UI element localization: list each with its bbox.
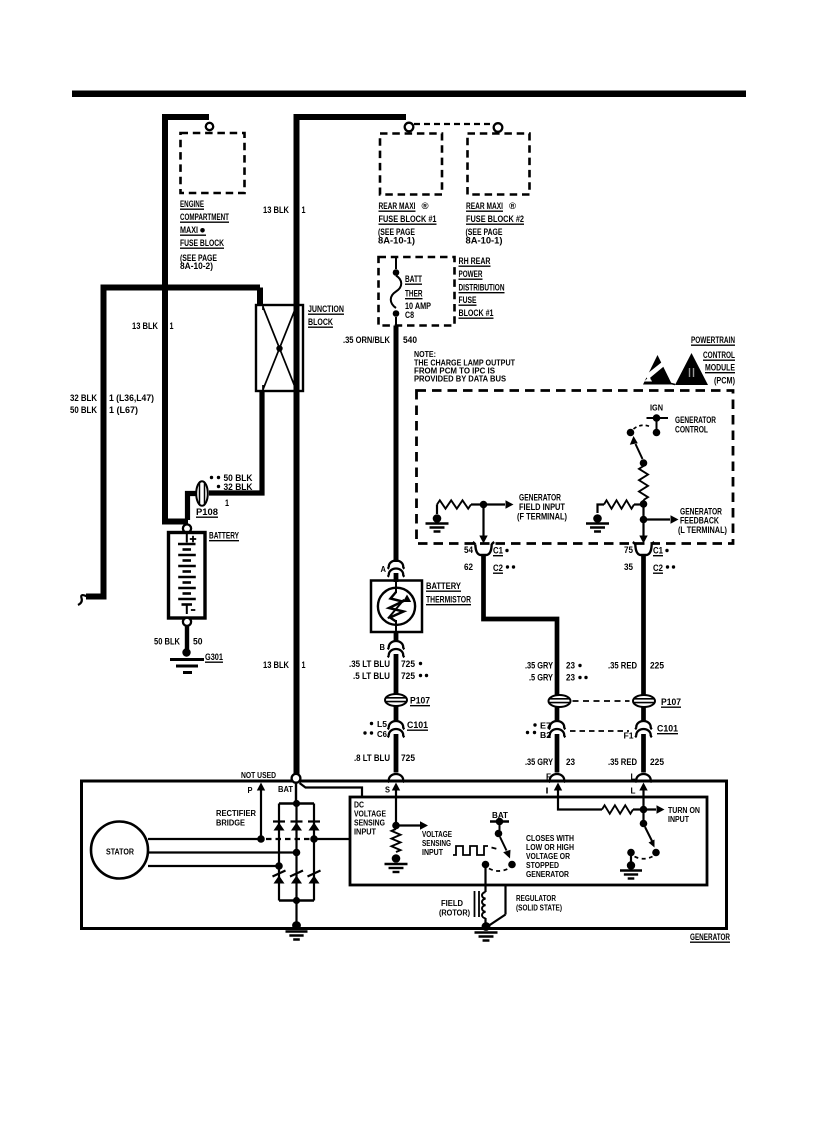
field contact <box>482 861 490 869</box>
svg-text:FIELD: FIELD <box>441 898 463 908</box>
svg-text:8A-10-2): 8A-10-2) <box>180 261 213 271</box>
svg-text:225: 225 <box>650 757 664 767</box>
bridge bottom bus <box>279 897 314 904</box>
svg-text:8A-10-1): 8A-10-1) <box>378 236 415 246</box>
svg-text:1: 1 <box>302 205 306 215</box>
regulator ground tie <box>489 885 506 926</box>
svg-text:.5 LT BLU: .5 LT BLU <box>353 671 390 681</box>
ESD warning triangle 1 <box>643 355 675 385</box>
svg-text:IGN: IGN <box>650 403 663 413</box>
diode D2 <box>291 822 303 831</box>
svg-text:75: 75 <box>624 545 633 555</box>
svg-text:POWER: POWER <box>459 269 483 279</box>
diode D1 <box>273 822 285 831</box>
svg-text:RH REAR: RH REAR <box>459 256 491 266</box>
connector ring rear maxi fuse block 2 <box>494 123 503 132</box>
svg-text:S: S <box>385 785 390 795</box>
label TURN ON INPUT <box>668 805 700 824</box>
svg-text:BLOCK #1: BLOCK #1 <box>459 308 494 318</box>
label 13 BLK 1 (engine wire) <box>132 321 174 331</box>
ESD warning triangle 2 <box>675 353 708 385</box>
svg-text:(SOLID STATE): (SOLID STATE) <box>516 903 562 913</box>
svg-text:1: 1 <box>302 660 306 670</box>
dashed switch arc (field) <box>489 869 509 872</box>
svg-text:FUSE BLOCK #2: FUSE BLOCK #2 <box>466 214 524 224</box>
label BATT THER 10 AMP C8 <box>405 274 431 320</box>
svg-text:.35 GRY: .35 GRY <box>525 757 554 767</box>
label .35 RED 225 (upper) <box>608 661 664 671</box>
dashed link between rear maxi blocks <box>414 123 493 125</box>
svg-text:C2: C2 <box>493 563 503 573</box>
svg-text:.35 ORN/BLK: .35 ORN/BLK <box>343 335 390 345</box>
resistor PCM F <box>437 500 505 514</box>
wire .8 LT BLU (thick) <box>394 734 399 773</box>
svg-text:BAT: BAT <box>278 784 294 794</box>
wire junction block top feed <box>257 288 263 306</box>
svg-text:(ROTOR): (ROTOR) <box>439 908 470 918</box>
svg-text:50 BLK: 50 BLK <box>70 405 97 415</box>
wire field output <box>484 868 486 892</box>
label REAR MAXI FUSE BLOCK 2 <box>466 201 525 246</box>
ground generator case <box>286 921 308 939</box>
wire PCM F exit <box>479 508 487 544</box>
connector 75 C1 cup <box>633 542 654 555</box>
bridge top bus <box>279 800 314 807</box>
battery bottom terminal ring <box>183 618 191 626</box>
svg-text:GENERATOR: GENERATOR <box>519 493 561 503</box>
terminal L arrow <box>631 783 648 796</box>
arrow VOLTAGE SENSING INPUT <box>399 821 428 829</box>
svg-text:FUSE BLOCK: FUSE BLOCK <box>180 238 224 248</box>
wire .35 RED lower (thick) <box>641 734 646 773</box>
field coil <box>475 891 486 918</box>
svg-text:MAXI: MAXI <box>180 225 198 235</box>
svg-text:JUNCTION: JUNCTION <box>308 304 344 314</box>
svg-text:REGULATOR: REGULATOR <box>516 893 557 903</box>
battery top terminal ring <box>183 524 191 532</box>
node PCM F junction <box>480 501 488 509</box>
svg-text:13 BLK: 13 BLK <box>132 321 158 331</box>
generator control switch <box>627 425 650 467</box>
label FIELD (ROTOR) <box>439 898 470 918</box>
node voltage sense <box>392 822 400 830</box>
label 50 BLK 32 BLK pins <box>210 473 253 508</box>
ground field <box>475 922 498 940</box>
label RECTIFIER BRIDGE <box>216 808 257 828</box>
svg-text:1 (L36,L47): 1 (L36,L47) <box>109 393 154 403</box>
label IGN <box>650 403 663 413</box>
svg-text:BATTERY: BATTERY <box>209 531 240 541</box>
label .35 LT BLU 725 <box>349 659 422 669</box>
connector ring rear maxi fuse block 1 <box>405 123 414 132</box>
label JUNCTION BLOCK <box>308 304 344 327</box>
label BAT (regulator) <box>492 810 509 820</box>
label .35 GRY 23 (upper) <box>525 661 582 671</box>
zener Z3 <box>308 871 321 884</box>
wire .35 LT BLU (thick) <box>394 654 399 694</box>
svg-text:BATT: BATT <box>405 274 422 284</box>
svg-text:®: ® <box>509 201 516 212</box>
junction block hourglass <box>263 306 296 391</box>
connector C101 right half <box>635 721 678 737</box>
terminal S arrow <box>385 783 400 796</box>
svg-text:GENERATOR: GENERATOR <box>675 415 716 425</box>
wire L down <box>642 795 644 820</box>
fuse BATT THER 10A C8 <box>391 257 402 326</box>
svg-text:50: 50 <box>193 637 203 647</box>
fuse block REAR MAXI 2 (dashed) <box>468 134 530 195</box>
svg-text:C101: C101 <box>407 720 428 730</box>
label 75 C1 35 C2 <box>624 545 675 573</box>
wire to battery thermistor <box>394 573 399 582</box>
label 50 BLK 50 <box>154 637 203 647</box>
svg-text:.35 GRY: .35 GRY <box>525 661 554 671</box>
label 50 BLK 1 (L67) <box>70 405 138 415</box>
note text <box>414 349 516 384</box>
label .35 GRY 23 (lower) <box>525 757 575 767</box>
svg-text:1: 1 <box>170 321 174 331</box>
wire .35 GRY lower (thick) <box>555 734 560 773</box>
label .5 LT BLU 725 <box>353 671 428 681</box>
label F1 pin <box>624 731 634 741</box>
svg-text:E7: E7 <box>540 721 551 731</box>
wire bridge to ground <box>295 901 297 923</box>
svg-text:(PCM): (PCM) <box>714 376 735 386</box>
dashed link P107 halves <box>573 700 630 702</box>
svg-text:BATTERY: BATTERY <box>426 581 462 591</box>
wire P107 to C101 <box>394 706 399 722</box>
svg-text:P: P <box>248 785 253 795</box>
svg-text:P108: P108 <box>196 507 218 517</box>
svg-text:ENGINE: ENGINE <box>180 199 204 209</box>
connector B <box>380 641 405 657</box>
battery thermistor symbol <box>378 581 415 633</box>
label BATTERY <box>209 531 240 541</box>
diode D3 <box>308 822 320 831</box>
svg-text:FIELD INPUT: FIELD INPUT <box>519 502 565 512</box>
wire BAT to bridge <box>295 783 297 805</box>
svg-text:CONTROL: CONTROL <box>703 350 735 360</box>
label .8 LT BLU 725 <box>354 753 415 763</box>
svg-text:P107: P107 <box>661 697 681 707</box>
battery thermistor box <box>371 581 422 633</box>
node PCM L junction 1 <box>640 500 648 517</box>
svg-text:23: 23 <box>566 757 575 767</box>
ground PCM F <box>426 514 449 531</box>
wire thermistor to connector B <box>394 632 399 642</box>
dashed link C101 halves <box>570 730 629 732</box>
wire BAT feed to regulator <box>300 783 363 797</box>
svg-text:23: 23 <box>566 661 575 671</box>
fuse block ENGINE COMPARTMENT (dashed) <box>181 133 245 193</box>
wire 32/50 BLK to engine harness (thick) <box>86 288 260 597</box>
dashed switch arc (L) <box>635 857 653 859</box>
node PCM L junction 2 <box>640 516 648 524</box>
connector ring engine fuse block <box>206 123 213 130</box>
L switch contact <box>627 849 635 862</box>
fuse holder box (dashed) <box>379 257 455 326</box>
svg-text:54: 54 <box>464 545 474 555</box>
svg-text:.35 RED: .35 RED <box>608 757 637 767</box>
svg-text:(F TERMINAL): (F TERMINAL) <box>517 512 567 522</box>
svg-text:C2: C2 <box>653 563 663 573</box>
ground voltage sense <box>385 854 408 872</box>
svg-text:C1: C1 <box>653 546 663 556</box>
wire S to sense node <box>395 795 397 822</box>
label REAR MAXI FUSE BLOCK 1 <box>378 201 437 246</box>
wire junction block to P108 (thick) <box>209 391 262 493</box>
svg-text:GENERATOR: GENERATOR <box>690 932 730 942</box>
regulator box <box>350 797 707 885</box>
svg-text:BRIDGE: BRIDGE <box>216 818 245 828</box>
stator winding circle <box>91 822 148 879</box>
label ENGINE COMPARTMENT MAXI FUSE BLOCK <box>180 199 229 271</box>
svg-text:RECTIFIER: RECTIFIER <box>216 808 257 818</box>
svg-text:FEEDBACK: FEEDBACK <box>680 516 719 526</box>
battery plates <box>178 550 196 600</box>
wire .35 GRY jog (thick) <box>484 556 558 695</box>
arrow GENERATOR FIELD INPUT <box>506 500 514 508</box>
connector L cap <box>631 772 652 783</box>
label GENERATOR CONTROL <box>675 415 716 435</box>
label 13 BLK 1 (top) <box>263 205 306 215</box>
wire 13 BLK engine compartment feed (thick L) <box>165 117 209 522</box>
svg-text:540: 540 <box>403 335 417 345</box>
svg-text:(L TERMINAL): (L TERMINAL) <box>678 525 727 535</box>
svg-text:C6: C6 <box>377 729 387 739</box>
svg-text:C1: C1 <box>493 546 503 556</box>
svg-text:PROVIDED BY DATA BUS: PROVIDED BY DATA BUS <box>414 374 506 384</box>
svg-text:32 BLK: 32 BLK <box>70 393 97 403</box>
svg-text:THER: THER <box>405 289 423 299</box>
wire GRY P107 to C101 <box>555 707 560 722</box>
svg-text:MODULE: MODULE <box>705 363 735 373</box>
svg-text:COMPARTMENT: COMPARTMENT <box>180 212 229 222</box>
svg-text:725: 725 <box>401 753 415 763</box>
connector F cap <box>546 772 565 783</box>
zener Z1 <box>273 871 286 884</box>
svg-text:CONTROL: CONTROL <box>675 425 708 435</box>
zener Z2 <box>290 871 303 884</box>
battery box <box>169 533 206 619</box>
label BAT <box>278 784 294 794</box>
connector C101 left half <box>549 721 566 737</box>
svg-text:725: 725 <box>401 659 415 669</box>
arrow TURN ON INPUT <box>657 805 665 813</box>
svg-text:32 BLK: 32 BLK <box>224 482 253 492</box>
svg-text:.8 LT BLU: .8 LT BLU <box>354 753 390 763</box>
svg-text:C101: C101 <box>657 724 678 734</box>
svg-text:225: 225 <box>650 661 664 671</box>
connector P107 (thermistor) <box>385 694 430 706</box>
node L/turn-on junction <box>640 806 648 814</box>
stator phase wire 1 <box>148 835 350 843</box>
svg-text:62: 62 <box>464 562 473 572</box>
wire 13 BLK main vertical (thick) <box>297 117 407 774</box>
svg-text:F1: F1 <box>624 731 634 741</box>
svg-text:1: 1 <box>225 498 229 508</box>
svg-text:STATOR: STATOR <box>106 847 135 857</box>
svg-text:NOT USED: NOT USED <box>241 770 276 780</box>
label .5 GRY 23 <box>529 673 588 683</box>
svg-text:.5 GRY: .5 GRY <box>529 673 554 683</box>
wire P108 to battery <box>188 494 197 521</box>
resistor voltage sense <box>392 829 401 852</box>
label GENERATOR FIELD INPUT (F TERMINAL) <box>517 493 567 522</box>
node L pivot <box>640 820 648 828</box>
generator box <box>82 781 727 929</box>
ground PCM L <box>586 514 609 531</box>
label 32 BLK 1 (L36,L47) <box>70 393 154 403</box>
connector P107 right half <box>633 695 681 707</box>
svg-text:8A-10-1): 8A-10-1) <box>466 236 503 246</box>
label GENERATOR <box>690 932 730 942</box>
resistor PCM L pull <box>639 466 648 500</box>
label E7 B2 pins <box>526 721 551 741</box>
wire .35 RED upper (thick) <box>641 556 646 695</box>
wire battery to G301 <box>185 626 189 649</box>
label .35 ORN/BLK 540 <box>343 335 417 345</box>
fuse block REAR MAXI 1 (dashed) <box>380 134 442 195</box>
svg-text:A: A <box>381 564 387 574</box>
svg-text:.35 LT BLU: .35 LT BLU <box>349 659 390 669</box>
terminal I arrow <box>546 783 563 796</box>
label DC VOLTAGE SENSING INPUT <box>354 800 386 837</box>
IGN feed contact <box>647 414 669 436</box>
svg-text:725: 725 <box>401 671 415 681</box>
wire I to resistor <box>558 795 602 810</box>
svg-text:BLOCK: BLOCK <box>308 317 333 327</box>
label GENERATOR FEEDBACK (L TERMINAL) <box>678 507 727 536</box>
svg-text:35: 35 <box>624 562 633 572</box>
PCM box (dashed) <box>417 391 734 544</box>
label RH REAR POWER DISTRIBUTION FUSE BLOCK 1 <box>459 256 505 318</box>
wire RED P107 to C101 <box>641 707 646 722</box>
label .35 RED 225 (lower) <box>608 757 664 767</box>
junction block box <box>256 305 303 391</box>
label VOLTAGE SENSING INPUT <box>422 829 452 857</box>
stator phase wire 2 <box>148 849 300 857</box>
label BATTERY THERMISTOR <box>426 581 471 605</box>
svg-text:.35 RED: .35 RED <box>608 661 637 671</box>
svg-text:G301: G301 <box>205 652 223 662</box>
svg-text:FUSE BLOCK #1: FUSE BLOCK #1 <box>379 214 437 224</box>
wire coil to ground <box>484 918 486 923</box>
wire PCM L exit <box>639 523 647 544</box>
label REGULATOR (SOLID STATE) <box>516 893 562 913</box>
svg-text:I: I <box>546 786 549 796</box>
svg-text:INPUT: INPUT <box>422 847 444 857</box>
connector P108 <box>196 481 218 517</box>
svg-text:13 BLK: 13 BLK <box>263 660 289 670</box>
square wave symbol <box>453 846 498 855</box>
svg-text:B: B <box>380 642 386 652</box>
svg-text:®: ® <box>422 201 429 212</box>
label STATOR <box>106 847 135 857</box>
label L5 C6 pins <box>363 719 387 739</box>
page top rule <box>72 91 746 98</box>
stator phase wire 3 <box>148 862 283 870</box>
svg-text:L5: L5 <box>377 719 387 729</box>
terminal BAT ring <box>292 774 301 783</box>
svg-text:1 (L67): 1 (L67) <box>109 405 138 415</box>
bridge column mid <box>295 804 297 901</box>
connector A <box>381 561 405 577</box>
resistor turn-on <box>602 805 656 813</box>
svg-text:REAR MAXI: REAR MAXI <box>379 201 416 211</box>
battery plus terminal <box>178 534 196 544</box>
label 13 BLK 1 (bottom) <box>263 660 306 670</box>
svg-text:DISTRIBUTION: DISTRIBUTION <box>459 283 505 293</box>
svg-text:INPUT: INPUT <box>668 814 690 824</box>
svg-text:REAR MAXI: REAR MAXI <box>466 201 503 211</box>
svg-text:50 BLK: 50 BLK <box>154 637 180 647</box>
label CLOSES WITH LOW OR HIGH VOLTAGE OR STOPPED GENERATOR <box>526 833 574 879</box>
svg-text:B2: B2 <box>540 730 551 740</box>
label POWERTRAIN CONTROL MODULE (PCM) <box>691 335 735 386</box>
label G301 <box>205 652 223 662</box>
svg-text:13 BLK: 13 BLK <box>263 205 289 215</box>
label 54 C1 62 C2 <box>464 545 515 573</box>
wire .35 ORN/BLK (thick) <box>394 326 399 563</box>
connector P107 left half <box>549 695 571 707</box>
svg-text:C8: C8 <box>405 310 414 320</box>
arrow GENERATOR FEEDBACK <box>647 515 679 523</box>
resistor PCM L left <box>598 500 644 513</box>
connector S cap <box>388 774 405 782</box>
battery minus terminal <box>182 605 196 615</box>
wire continuation hook <box>78 595 87 605</box>
svg-text:INPUT: INPUT <box>354 827 377 837</box>
bridge column left <box>278 804 280 901</box>
label NOT USED <box>241 770 276 780</box>
svg-text:FUSE: FUSE <box>459 295 477 305</box>
terminal P arrow <box>248 783 266 840</box>
BAT contact <box>490 818 509 838</box>
connector 54 C1 cup <box>473 542 494 555</box>
svg-text:23: 23 <box>566 673 575 683</box>
svg-text:THERMISTOR: THERMISTOR <box>426 595 471 605</box>
ground G301 <box>170 648 204 672</box>
L switch blade <box>645 827 660 856</box>
svg-text:P107: P107 <box>410 696 430 706</box>
svg-text:GENERATOR: GENERATOR <box>526 869 570 879</box>
bridge column right <box>313 804 315 901</box>
connector C101 (thermistor) <box>388 720 428 737</box>
svg-text:L: L <box>631 786 636 796</box>
regulator switch blade <box>500 837 516 868</box>
ground L switch <box>620 861 642 878</box>
svg-text:POWERTRAIN: POWERTRAIN <box>691 335 735 345</box>
